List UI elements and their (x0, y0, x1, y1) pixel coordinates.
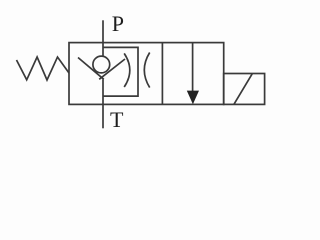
svg-text:T: T (110, 107, 124, 132)
svg-text:P: P (112, 11, 124, 36)
